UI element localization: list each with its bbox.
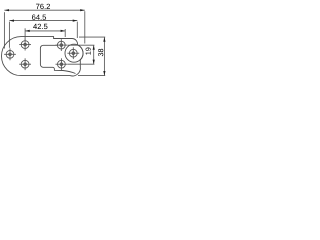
dimension 76.2 arrows [4, 9, 84, 11]
hole C [19, 58, 31, 70]
dimension 64.5 line [9, 20, 77, 22]
hole F [56, 58, 68, 70]
dimension 38 extension lines [78, 37, 105, 76]
dimension 42.5 line [25, 30, 65, 32]
label 19 [86, 48, 91, 55]
hole D [55, 39, 67, 51]
label 76.2 [36, 4, 50, 9]
dimension 19 line [93, 45, 95, 64]
C-shaped cutout [40, 45, 75, 73]
dimension 19 extension lines [68, 45, 95, 64]
pin hole E [67, 47, 79, 59]
hole B [4, 48, 16, 60]
hole A [19, 39, 31, 51]
label 38 [98, 49, 103, 56]
dimension 38 line [103, 37, 105, 76]
label 64.5 [32, 14, 46, 19]
dimension 76.2 extension lines [4, 11, 84, 48]
label 42.5 [33, 24, 47, 29]
dimension 38 arrows [103, 37, 105, 76]
dimension 64.5 arrows [9, 20, 77, 22]
knuckle circle [65, 44, 83, 62]
dimension 76.2 line [4, 9, 84, 11]
dimension 64.5 extension lines [9, 22, 77, 48]
dimension 42.5 arrows [25, 30, 65, 32]
plate outline [2, 37, 84, 76]
dimension 42.5 extension lines [25, 28, 65, 39]
dimension 19 arrows [93, 45, 95, 64]
